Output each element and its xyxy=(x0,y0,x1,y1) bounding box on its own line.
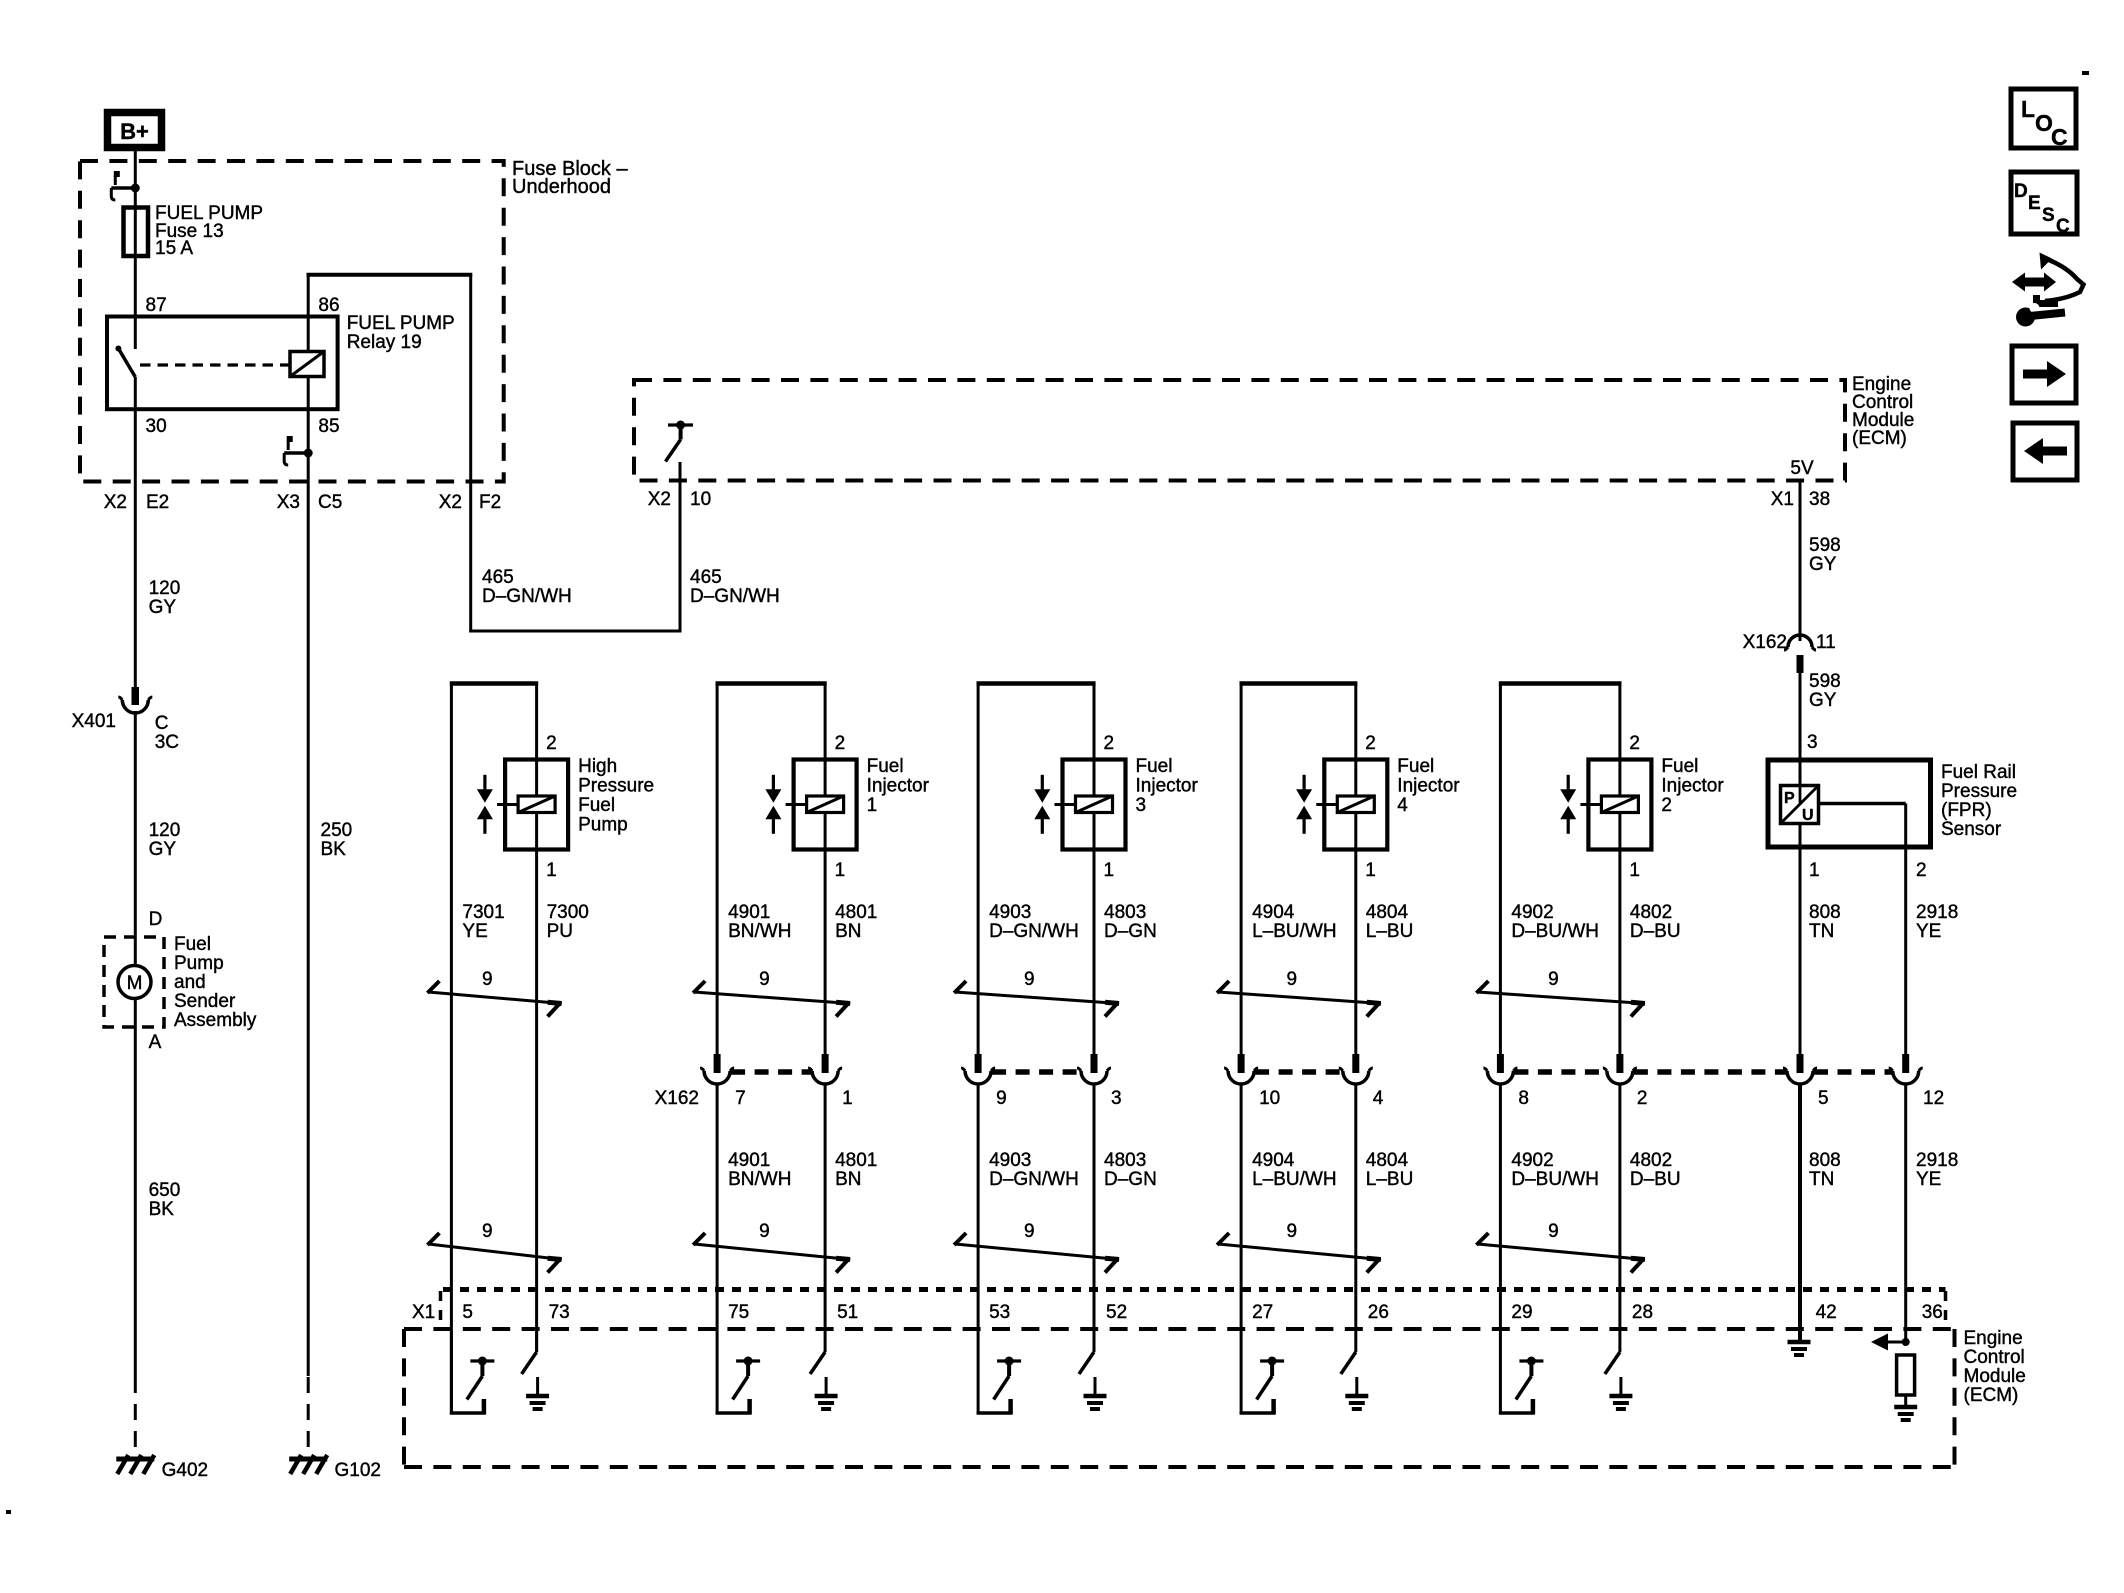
svg-text:D–BU/WH: D–BU/WH xyxy=(1511,921,1599,942)
svg-text:Sender: Sender xyxy=(174,991,236,1012)
svg-text:L–BU: L–BU xyxy=(1366,921,1414,942)
ground below resistor xyxy=(1894,1405,1917,1410)
wire left leg (fuel injector 2) xyxy=(1499,684,1502,1055)
svg-text:Module: Module xyxy=(1964,1366,2026,1387)
svg-text:4803: 4803 xyxy=(1104,1150,1146,1171)
svg-text:Fuel: Fuel xyxy=(1661,756,1698,777)
svg-text:7301: 7301 xyxy=(462,902,504,923)
relay coil xyxy=(290,352,324,377)
wire left leg (fuel injector 3) xyxy=(977,684,980,1055)
top right tick xyxy=(2082,71,2089,75)
svg-text:S: S xyxy=(2042,205,2055,226)
svg-text:D–GN: D–GN xyxy=(1104,921,1157,942)
svg-text:BN/WH: BN/WH xyxy=(728,1169,791,1190)
solenoid component fuel injector 1 xyxy=(794,760,857,850)
svg-text:465: 465 xyxy=(690,567,722,588)
svg-text:Engine: Engine xyxy=(1964,1328,2023,1349)
svg-text:E2: E2 xyxy=(146,492,169,513)
svg-text:A: A xyxy=(149,1032,162,1053)
svg-text:BK: BK xyxy=(149,1199,175,1220)
svg-text:Fuel Rail: Fuel Rail xyxy=(1941,762,2016,783)
svg-text:C5: C5 xyxy=(318,492,342,513)
wire right leg lower (fuel injector 3) xyxy=(1093,1085,1096,1331)
valve arrows (fuel injector 1) xyxy=(772,775,775,790)
svg-text:598: 598 xyxy=(1809,671,1841,692)
DESC icon box xyxy=(2011,172,2077,234)
wire right leg lower (fuel injector 1) xyxy=(824,1085,827,1331)
ECM ground switch xyxy=(522,1352,537,1374)
ECM ground switch xyxy=(1341,1352,1356,1374)
harness loom 9 lower (fuel injector 3) xyxy=(955,1244,1119,1260)
svg-text:D–GN/WH: D–GN/WH xyxy=(482,586,572,607)
svg-text:Injector: Injector xyxy=(867,776,930,797)
svg-text:9: 9 xyxy=(1286,969,1297,990)
svg-text:12: 12 xyxy=(1923,1088,1944,1109)
wire xyxy=(824,1331,827,1352)
svg-text:51: 51 xyxy=(837,1302,858,1323)
ground G402 xyxy=(116,1457,154,1462)
wire xyxy=(1240,1331,1243,1415)
svg-text:87: 87 xyxy=(146,295,167,316)
connector X162 pins 8/2 (fuel injector 2) xyxy=(1497,1054,1504,1073)
pull-up resistor (ECM) xyxy=(1897,1355,1915,1395)
bottom left tick xyxy=(6,1510,11,1514)
svg-text:9: 9 xyxy=(759,969,770,990)
wire left leg lower (fuel injector 2) xyxy=(1499,1085,1502,1331)
svg-text:30: 30 xyxy=(146,416,167,437)
ECM relay driver switch xyxy=(668,423,693,426)
svg-text:C: C xyxy=(2056,216,2070,237)
wire right leg (high pressure fuel pump) xyxy=(535,684,538,1353)
svg-text:L–BU: L–BU xyxy=(1366,1169,1414,1190)
svg-text:Relay 19: Relay 19 xyxy=(347,332,422,353)
svg-text:L: L xyxy=(2021,96,2035,122)
wire xyxy=(977,1331,980,1415)
svg-text:4902: 4902 xyxy=(1511,902,1553,923)
svg-text:4902: 4902 xyxy=(1511,1150,1553,1171)
wire 808 lower leg xyxy=(1798,1085,1802,1340)
svg-text:GY: GY xyxy=(149,839,177,860)
wire left leg (fuel injector 1) xyxy=(716,684,719,1055)
harness loom 9 (high pressure fuel pump) xyxy=(428,992,561,1004)
svg-text:Injector: Injector xyxy=(1397,776,1460,797)
svg-text:and: and xyxy=(174,972,206,993)
wire xyxy=(1354,1331,1357,1352)
solenoid component fuel injector 4 xyxy=(1324,760,1387,850)
svg-text:Fuel: Fuel xyxy=(867,756,904,777)
svg-text:D–BU: D–BU xyxy=(1630,1169,1681,1190)
svg-text:10: 10 xyxy=(690,489,711,510)
svg-text:3C: 3C xyxy=(155,732,179,753)
schematic navigation icon xyxy=(2012,273,2056,292)
svg-text:Pressure: Pressure xyxy=(1941,781,2017,802)
svg-text:9: 9 xyxy=(482,969,493,990)
fuse block underhood dashed box xyxy=(80,161,504,482)
svg-text:42: 42 xyxy=(1816,1302,1837,1323)
svg-text:5: 5 xyxy=(1818,1088,1829,1109)
connector X162 pins 10/4 (fuel injector 4) xyxy=(1238,1054,1245,1073)
svg-text:75: 75 xyxy=(728,1302,749,1323)
svg-text:28: 28 xyxy=(1632,1302,1653,1323)
svg-text:598: 598 xyxy=(1809,535,1841,556)
wire dashed tail to G402 xyxy=(134,1377,137,1454)
svg-text:4804: 4804 xyxy=(1366,1150,1409,1171)
svg-text:Control: Control xyxy=(1964,1347,2025,1368)
valve arrows (fuel injector 3) xyxy=(1041,775,1044,790)
svg-text:2: 2 xyxy=(1365,733,1376,754)
svg-text:15 A: 15 A xyxy=(155,238,193,259)
wire 465 D-GN/WH left leg xyxy=(469,482,472,633)
ECM ground switch xyxy=(810,1352,825,1374)
svg-text:7: 7 xyxy=(735,1088,746,1109)
engine control module bottom dashed box xyxy=(404,1327,1955,1331)
wire right leg (fuel injector 1) xyxy=(824,684,827,1055)
svg-text:FUEL PUMP: FUEL PUMP xyxy=(347,313,455,334)
svg-text:C: C xyxy=(155,713,169,734)
svg-text:2: 2 xyxy=(546,733,557,754)
wire right leg (fuel injector 3) xyxy=(1093,684,1096,1055)
svg-text:GY: GY xyxy=(1809,690,1837,711)
svg-text:9: 9 xyxy=(1024,1221,1035,1242)
svg-text:Pressure: Pressure xyxy=(578,776,654,797)
svg-text:650: 650 xyxy=(149,1180,181,1201)
svg-text:X3: X3 xyxy=(277,492,300,513)
wire: feed loop top bar (fuel injector 1) xyxy=(716,681,827,686)
svg-text:52: 52 xyxy=(1106,1302,1127,1323)
svg-text:G102: G102 xyxy=(335,1460,381,1481)
svg-text:L–BU/WH: L–BU/WH xyxy=(1252,1169,1336,1190)
svg-text:PU: PU xyxy=(547,921,573,942)
svg-text:BK: BK xyxy=(321,839,347,860)
wire xyxy=(535,1331,538,1352)
ECM driver switch xyxy=(736,1359,760,1362)
svg-text:1: 1 xyxy=(546,860,557,881)
fuel rail pressure sensor box xyxy=(1768,760,1931,847)
svg-text:53: 53 xyxy=(989,1302,1010,1323)
svg-text:X2: X2 xyxy=(439,492,462,513)
svg-text:Assembly: Assembly xyxy=(174,1010,257,1031)
wire xyxy=(450,1331,453,1415)
valve arrows (fuel injector 2) xyxy=(1567,775,1570,790)
svg-text:X1: X1 xyxy=(412,1302,435,1323)
harness loom 9 lower (fuel injector 2) xyxy=(1477,1244,1645,1260)
P/U transducer square xyxy=(1781,786,1819,824)
ground at ECM pin 42 xyxy=(1788,1340,1811,1345)
sensor internal wire to pin 2 xyxy=(1819,802,1906,806)
svg-text:73: 73 xyxy=(549,1302,570,1323)
wire right leg lower (fuel injector 4) xyxy=(1354,1085,1357,1331)
svg-text:1: 1 xyxy=(1629,860,1640,881)
svg-text:250: 250 xyxy=(321,820,353,841)
wire 598 GY upper xyxy=(1799,481,1802,642)
svg-text:Pump: Pump xyxy=(174,953,224,974)
wire: feed loop top bar (fuel injector 3) xyxy=(977,681,1096,686)
svg-text:X162: X162 xyxy=(1743,632,1787,653)
svg-text:2: 2 xyxy=(1916,860,1927,881)
wire right leg (fuel injector 4) xyxy=(1354,684,1357,1055)
ECM driver switch xyxy=(1519,1359,1543,1362)
ECM driver switch xyxy=(997,1359,1021,1362)
fuse FUEL PUMP Fuse 13 15A xyxy=(134,207,137,317)
svg-text:808: 808 xyxy=(1809,902,1841,923)
valve arrows (high pressure fuel pump) xyxy=(483,775,486,790)
svg-text:1: 1 xyxy=(835,860,846,881)
svg-text:4901: 4901 xyxy=(728,902,770,923)
svg-text:4903: 4903 xyxy=(989,902,1031,923)
svg-text:4: 4 xyxy=(1397,795,1408,816)
svg-text:Pump: Pump xyxy=(578,815,628,836)
svg-text:86: 86 xyxy=(318,295,339,316)
svg-text:3: 3 xyxy=(1136,795,1147,816)
svg-text:1: 1 xyxy=(1104,860,1115,881)
svg-text:3: 3 xyxy=(1111,1088,1122,1109)
harness loom 9 lower (high pressure fuel pump) xyxy=(428,1244,561,1260)
svg-text:1: 1 xyxy=(867,795,878,816)
svg-text:D–GN/WH: D–GN/WH xyxy=(989,921,1079,942)
svg-text:85: 85 xyxy=(318,416,339,437)
svg-text:4801: 4801 xyxy=(835,902,877,923)
connector X162 pins 9/3 (fuel injector 3) xyxy=(975,1054,982,1073)
svg-text:(ECM): (ECM) xyxy=(1964,1385,2019,1406)
svg-text:D: D xyxy=(2014,181,2028,202)
svg-text:D: D xyxy=(149,909,163,930)
svg-text:120: 120 xyxy=(149,820,181,841)
svg-text:E: E xyxy=(2028,193,2041,214)
svg-text:X1: X1 xyxy=(1771,489,1794,510)
svg-text:11: 11 xyxy=(1816,632,1836,653)
wire dashed tail to G102 xyxy=(307,1377,310,1454)
svg-text:9: 9 xyxy=(1548,969,1559,990)
svg-text:4: 4 xyxy=(1373,1088,1384,1109)
svg-text:4802: 4802 xyxy=(1630,902,1672,923)
svg-text:3: 3 xyxy=(1807,732,1818,753)
svg-text:29: 29 xyxy=(1511,1302,1532,1323)
wire 120 GY upper xyxy=(134,409,137,687)
wire: feed loop top bar (high pressure fuel pump) xyxy=(450,681,538,686)
svg-text:9: 9 xyxy=(1548,1221,1559,1242)
svg-text:4802: 4802 xyxy=(1630,1150,1672,1171)
connector X401 C 3C xyxy=(132,687,140,705)
svg-text:X162: X162 xyxy=(655,1088,699,1109)
svg-text:4803: 4803 xyxy=(1104,902,1146,923)
svg-text:465: 465 xyxy=(482,567,514,588)
svg-text:(FPR): (FPR) xyxy=(1941,800,1992,821)
harness loom 9 (fuel injector 3) xyxy=(955,992,1119,1004)
wire: feed loop top bar (fuel injector 4) xyxy=(1240,681,1358,686)
next arrow icon xyxy=(2012,346,2076,403)
svg-text:2: 2 xyxy=(1637,1088,1648,1109)
wire xyxy=(1093,1331,1096,1352)
wire 120 GY lower xyxy=(134,711,137,966)
svg-text:9: 9 xyxy=(1286,1221,1297,1242)
svg-text:2: 2 xyxy=(835,733,846,754)
previous arrow icon xyxy=(2013,423,2077,480)
svg-text:Injector: Injector xyxy=(1661,776,1724,797)
solenoid component high pressure fuel pump xyxy=(505,760,568,850)
ECM driver switch xyxy=(1260,1359,1284,1362)
svg-text:1: 1 xyxy=(1809,860,1820,881)
svg-text:36: 36 xyxy=(1922,1302,1943,1323)
svg-text:Underhood: Underhood xyxy=(512,176,611,198)
svg-text:2918: 2918 xyxy=(1916,902,1958,923)
svg-text:F2: F2 xyxy=(479,492,501,513)
svg-text:B+: B+ xyxy=(120,119,149,144)
svg-text:D–BU: D–BU xyxy=(1630,921,1681,942)
svg-text:4904: 4904 xyxy=(1252,1150,1295,1171)
svg-text:BN: BN xyxy=(835,921,861,942)
svg-text:38: 38 xyxy=(1809,489,1830,510)
battery feed B+ box xyxy=(108,113,162,148)
svg-text:8: 8 xyxy=(1518,1088,1529,1109)
svg-text:4804: 4804 xyxy=(1366,902,1409,923)
svg-text:X2: X2 xyxy=(648,489,671,510)
svg-text:GY: GY xyxy=(1809,554,1837,575)
svg-text:2918: 2918 xyxy=(1916,1150,1958,1171)
clip tap at relay 85 xyxy=(304,449,313,458)
svg-text:7300: 7300 xyxy=(547,902,589,923)
wire 465 D-GN/WH right leg xyxy=(679,462,682,633)
wire xyxy=(1618,1331,1621,1352)
svg-text:Fuel: Fuel xyxy=(174,934,211,955)
svg-text:Injector: Injector xyxy=(1136,776,1199,797)
svg-text:Fuel: Fuel xyxy=(578,795,615,816)
svg-text:G402: G402 xyxy=(162,1460,208,1481)
wire through sensor xyxy=(1799,760,1802,1054)
svg-text:27: 27 xyxy=(1252,1302,1273,1323)
svg-text:L–BU/WH: L–BU/WH xyxy=(1252,921,1336,942)
ECM ground switch xyxy=(1605,1352,1620,1374)
relay switch box xyxy=(107,317,338,410)
svg-text:2: 2 xyxy=(1661,795,1672,816)
svg-text:X2: X2 xyxy=(104,492,127,513)
svg-text:1: 1 xyxy=(1365,860,1376,881)
svg-text:4904: 4904 xyxy=(1252,902,1295,923)
wire: feed loop top bar (fuel injector 2) xyxy=(1499,681,1622,686)
ECM bottom connector dotted row X1 xyxy=(443,1287,1946,1292)
svg-text:YE: YE xyxy=(462,921,487,942)
svg-text:GY: GY xyxy=(149,597,177,618)
harness loom 9 (fuel injector 1) xyxy=(694,992,850,1004)
svg-text:BN/WH: BN/WH xyxy=(728,921,791,942)
fuel pump relay 19 coil feed box (86/F2 frame) xyxy=(307,273,473,277)
svg-text:2: 2 xyxy=(1629,733,1640,754)
solenoid component fuel injector 2 xyxy=(1588,760,1651,850)
svg-text:1: 1 xyxy=(842,1088,853,1109)
svg-text:C: C xyxy=(2051,124,2068,150)
svg-text:D–BU/WH: D–BU/WH xyxy=(1511,1169,1599,1190)
svg-text:D–GN/WH: D–GN/WH xyxy=(989,1169,1079,1190)
svg-text:U: U xyxy=(1802,807,1814,824)
svg-text:4903: 4903 xyxy=(989,1150,1031,1171)
connector X162 11 xyxy=(1784,647,1816,650)
wire left leg (high pressure fuel pump) xyxy=(450,684,453,1415)
wire right leg (fuel injector 2) xyxy=(1618,684,1621,1055)
svg-text:2: 2 xyxy=(1104,733,1115,754)
svg-text:X401: X401 xyxy=(72,711,116,732)
svg-text:BN: BN xyxy=(835,1169,861,1190)
svg-text:26: 26 xyxy=(1368,1302,1389,1323)
relay actuation dashed link xyxy=(140,363,290,366)
svg-text:808: 808 xyxy=(1809,1150,1841,1171)
harness loom 9 (fuel injector 2) xyxy=(1477,992,1645,1004)
svg-text:10: 10 xyxy=(1259,1088,1280,1109)
wire 650 BK xyxy=(134,998,137,1377)
svg-text:TN: TN xyxy=(1809,921,1834,942)
svg-text:120: 120 xyxy=(149,578,181,599)
svg-text:9: 9 xyxy=(759,1221,770,1242)
svg-text:High: High xyxy=(578,756,617,777)
svg-text:4901: 4901 xyxy=(728,1150,770,1171)
ECM driver switch xyxy=(470,1359,494,1362)
svg-text:4801: 4801 xyxy=(835,1150,877,1171)
svg-text:TN: TN xyxy=(1809,1169,1834,1190)
harness loom 9 (fuel injector 4) xyxy=(1218,992,1381,1004)
wire left leg lower (fuel injector 3) xyxy=(977,1085,980,1331)
connector X162 pins 7/1 (fuel injector 1) xyxy=(714,1054,721,1073)
svg-text:(ECM): (ECM) xyxy=(1852,428,1907,449)
engine control module top dashed box xyxy=(634,380,1845,481)
svg-text:5: 5 xyxy=(462,1302,473,1323)
valve arrows (fuel injector 4) xyxy=(1302,775,1305,790)
LOC icon box xyxy=(2011,89,2076,148)
svg-text:D–GN: D–GN xyxy=(1104,1169,1157,1190)
wire left leg lower (fuel injector 1) xyxy=(716,1085,719,1331)
harness loom 9 lower (fuel injector 4) xyxy=(1218,1244,1381,1260)
wire xyxy=(1499,1331,1502,1415)
wire left leg (fuel injector 4) xyxy=(1240,684,1243,1055)
svg-text:D–GN/WH: D–GN/WH xyxy=(690,586,780,607)
relay switch lever xyxy=(134,317,137,350)
solenoid component fuel injector 3 xyxy=(1063,760,1126,850)
svg-text:M: M xyxy=(127,973,143,994)
svg-text:9: 9 xyxy=(482,1221,493,1242)
wire 2918 lower leg xyxy=(1904,1085,1907,1342)
svg-text:Sensor: Sensor xyxy=(1941,819,2002,840)
wire B+ down to fuse xyxy=(134,151,137,207)
svg-text:YE: YE xyxy=(1916,921,1941,942)
wire 598 GY lower xyxy=(1799,673,1802,760)
svg-text:YE: YE xyxy=(1916,1169,1941,1190)
junction + reference arrow at pin 36 xyxy=(1902,1338,1910,1346)
ground G102 xyxy=(289,1457,327,1462)
fuel pump and sender assembly xyxy=(104,937,164,1027)
connector X162 pins 5/12 (FPR) xyxy=(1797,1054,1804,1073)
svg-text:Fuel: Fuel xyxy=(1397,756,1434,777)
svg-text:Fuel: Fuel xyxy=(1136,756,1173,777)
svg-text:5V: 5V xyxy=(1790,458,1814,479)
wire 86 to 85 through relay xyxy=(307,275,310,1376)
svg-text:9: 9 xyxy=(996,1088,1007,1109)
wire right leg lower (fuel injector 2) xyxy=(1618,1085,1621,1331)
clip tap at fuse feed xyxy=(131,184,140,193)
ECM ground switch xyxy=(1079,1352,1094,1374)
harness loom 9 lower (fuel injector 1) xyxy=(694,1244,850,1260)
svg-text:P: P xyxy=(1784,790,1795,807)
svg-text:9: 9 xyxy=(1024,969,1035,990)
wire xyxy=(716,1331,719,1415)
wire left leg lower (fuel injector 4) xyxy=(1240,1085,1243,1331)
